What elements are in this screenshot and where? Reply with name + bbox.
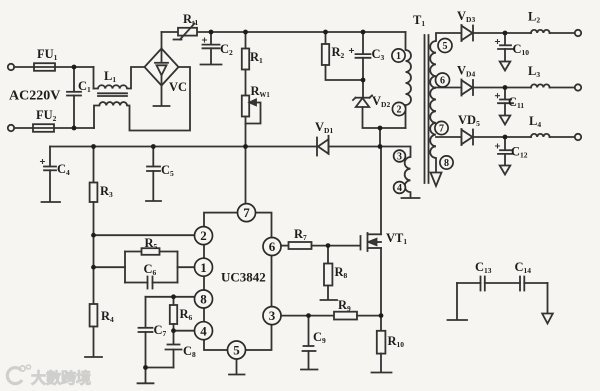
svg-text:1: 1 [200, 260, 207, 275]
svg-text:UC3842: UC3842 [221, 270, 266, 285]
svg-text:6: 6 [269, 239, 276, 254]
svg-text:5: 5 [443, 41, 448, 52]
svg-text:3: 3 [269, 308, 276, 323]
svg-text:3: 3 [397, 152, 402, 163]
svg-text:2: 2 [200, 228, 207, 243]
svg-text:1: 1 [396, 51, 401, 62]
svg-text:8: 8 [444, 158, 449, 169]
svg-text:4: 4 [200, 323, 207, 338]
svg-text:4: 4 [397, 183, 402, 194]
svg-text:5: 5 [233, 343, 240, 358]
svg-text:8: 8 [200, 292, 207, 307]
svg-text:VC: VC [169, 80, 187, 94]
svg-text:大數跨境: 大數跨境 [31, 369, 91, 387]
svg-text:6: 6 [440, 76, 445, 87]
svg-text:7: 7 [243, 205, 250, 220]
svg-text:7: 7 [439, 124, 444, 135]
svg-text:AC220V: AC220V [9, 89, 60, 104]
svg-text:2: 2 [397, 105, 402, 116]
